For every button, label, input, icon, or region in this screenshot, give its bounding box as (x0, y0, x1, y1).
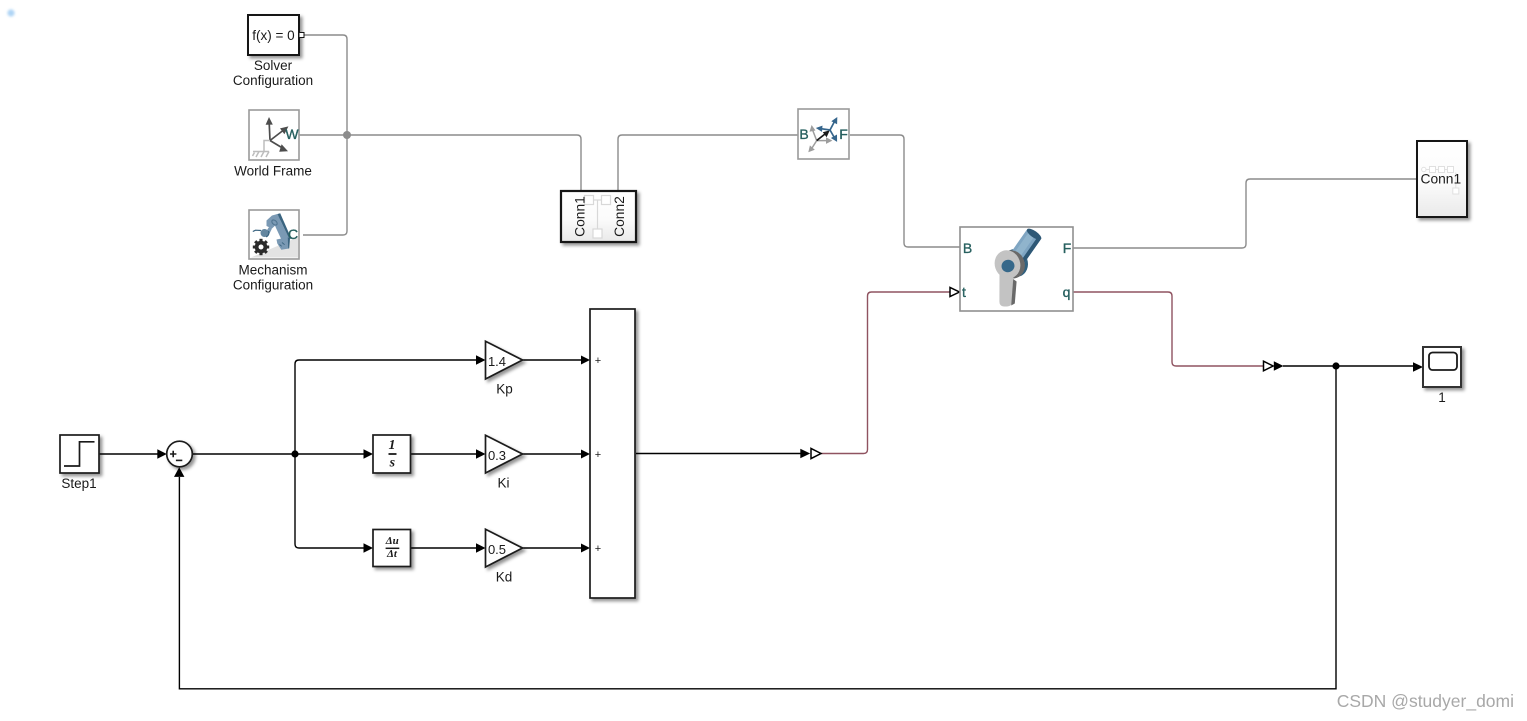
gear (253, 239, 269, 255)
svg-text:Conn2: Conn2 (612, 196, 627, 237)
BLOCK Solver Configuration (233, 15, 313, 88)
blue base disc behind (999, 246, 1031, 280)
node branch junction (291, 450, 298, 457)
wire torque PS line to t port (821, 292, 950, 454)
svg-text:Conn1: Conn1 (573, 196, 588, 237)
gray frame (808, 125, 832, 152)
gray flange dark rim (995, 247, 1028, 282)
wire q signal to scope (1283, 365, 1414, 367)
arrow into sum block row3 (581, 544, 590, 553)
svg-text:Kp: Kp (496, 382, 513, 397)
arrow into Kd (476, 543, 486, 552)
node scope junction (1332, 362, 1339, 369)
svg-text:+: + (595, 543, 601, 555)
svg-text:F: F (1063, 240, 1072, 256)
arrow PS-to-signal start (1274, 361, 1284, 370)
arrow into derivative (364, 543, 374, 552)
arrow into sum block row1 (581, 356, 590, 365)
svg-text:t: t (962, 284, 966, 300)
svg-text:W: W (285, 126, 299, 142)
svg-text:Kd: Kd (496, 570, 513, 585)
svg-text:Configuration: Configuration (233, 278, 313, 293)
svg-text:s: s (389, 455, 396, 470)
arrow feedback into sum (174, 467, 184, 477)
wire q PS line out (1073, 292, 1264, 366)
ARROWHEADS hollow PS (811, 287, 1273, 458)
BLOCK Gain Kp (486, 341, 523, 396)
BLOCK Gain Kd (486, 529, 523, 584)
wire branch down to derivative (295, 454, 364, 548)
arrow into Ki (476, 449, 486, 458)
arrow into Kp (476, 355, 486, 364)
hollow arrow after converter (811, 448, 821, 458)
svg-text:Δu: Δu (385, 535, 399, 547)
svg-text:CSDN @studyer_domi: CSDN @studyer_domi (1337, 691, 1514, 712)
hole (1000, 258, 1016, 274)
BLOCK Gain Ki (486, 435, 523, 490)
gray flange (991, 247, 1024, 282)
arrow into scope (1413, 362, 1423, 372)
decorative blue blob top-left (7, 9, 14, 16)
wire solver-to-mechanism vertical (303, 35, 347, 235)
black arrow (817, 134, 825, 141)
wire sum block out to converter (636, 453, 801, 455)
BLOCK Sum rectangle (590, 309, 635, 598)
WIRES-BLACK signal (99, 360, 1414, 689)
wire Kd out to sum block (523, 547, 583, 549)
svg-text:Mechanism: Mechanism (238, 263, 307, 278)
BLOCK World Frame (234, 110, 312, 178)
svg-text:+: + (595, 449, 601, 461)
robot arm icon (253, 213, 291, 250)
svg-text:B: B (799, 126, 808, 142)
wire sum to branch junction and 1/s (193, 453, 365, 455)
arrow signal-to-PS converter (800, 449, 810, 459)
svg-text:1.4: 1.4 (488, 354, 506, 369)
svg-text:F: F (839, 126, 848, 142)
stem (999, 274, 1013, 307)
svg-text:q: q (1063, 284, 1071, 300)
arrow into sum block row2 (581, 450, 590, 459)
wire branch up to Kp (295, 360, 476, 454)
svg-text:0.3: 0.3 (488, 448, 506, 463)
BLOCK Sum circle (167, 441, 193, 467)
svg-text:Ki: Ki (497, 476, 509, 491)
BLOCK Revolute Joint (960, 227, 1073, 311)
node junction world/solver/mechanism (343, 131, 351, 139)
wire Kp out to sum block (523, 359, 583, 361)
hollow arrow before q converter (1264, 361, 1274, 371)
svg-text:1: 1 (1438, 390, 1446, 405)
svg-text:0.5: 0.5 (488, 542, 506, 557)
BLOCK Rigid Transform (798, 109, 849, 159)
BLOCK Mechanism Configuration (233, 210, 313, 293)
wire transform F to revolute B (850, 135, 960, 247)
wire Step1 to sum (99, 453, 158, 455)
svg-text:Solver: Solver (254, 58, 293, 73)
wire revolute F to Conn1 subsystem (1073, 179, 1417, 248)
svg-text:Conn1: Conn1 (1421, 172, 1462, 187)
arrow into sum circle (157, 449, 167, 458)
wire integrator out to Ki gain (411, 453, 477, 455)
svg-text:1: 1 (389, 438, 396, 453)
svg-text:World Frame: World Frame (234, 163, 312, 178)
BLOCK Step1 (60, 435, 99, 491)
svg-text:C: C (288, 226, 298, 242)
arrow into integrator (364, 449, 374, 458)
wire derivative out to Kd gain (411, 547, 477, 549)
svg-text:Configuration: Configuration (233, 73, 313, 88)
svg-text:Step1: Step1 (61, 476, 96, 491)
blue frame (816, 117, 838, 142)
BLOCK Connection subsystem Conn1/Conn2 (561, 191, 636, 242)
svg-text:Δt: Δt (386, 548, 398, 560)
BLOCK Conn1 subsystem right (1417, 141, 1467, 217)
WIRES-GRAY (299, 35, 1417, 248)
BLOCK Scope (1423, 347, 1461, 405)
svg-text:f(x) = 0: f(x) = 0 (252, 28, 294, 43)
hollow arrow at t port (950, 287, 960, 296)
wire Ki out to sum block (523, 453, 583, 455)
wire Conn2 to transform B (618, 135, 798, 191)
svg-text:B: B (963, 240, 972, 256)
BLOCK Derivative du/dt (373, 530, 411, 567)
joint icon (991, 227, 1043, 307)
blue cylinder (1008, 227, 1043, 267)
svg-text:+: + (595, 355, 601, 367)
ARROWHEADS solid (157, 355, 1423, 552)
wire world-frame to Conn1 (299, 135, 581, 191)
wire feedback loop (179, 366, 1336, 689)
WIRES-RED physical signal (821, 292, 1264, 454)
BLOCK Integrator 1/s (373, 435, 411, 473)
